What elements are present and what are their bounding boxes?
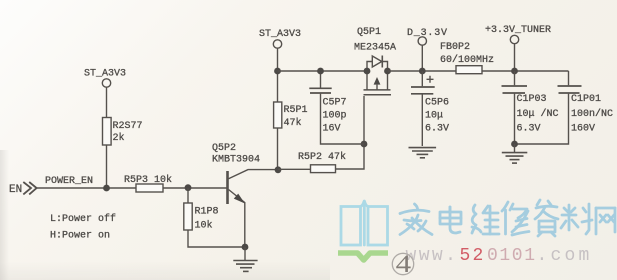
svg-text:EN: EN <box>9 184 22 196</box>
svg-text:Q5P1: Q5P1 <box>357 27 381 38</box>
node junction gate/C5P7 <box>361 141 368 148</box>
svg-text:FB0P2: FB0P2 <box>440 42 470 53</box>
wire R5P2 to Q5P1 gate <box>336 96 365 169</box>
wire drain to ferrite bead <box>388 70 457 72</box>
svg-text:POWER_EN: POWER_EN <box>45 176 93 187</box>
svg-text:L:Power off: L:Power off <box>50 213 116 225</box>
wire R2S77 to POWER_EN rail <box>106 145 108 188</box>
wire junction to R5P2 <box>278 168 311 170</box>
node junction rail left <box>274 68 281 75</box>
capacitor C5P7 100p 16V <box>309 71 364 144</box>
wire ST_A3V3 down to R5P1 <box>277 48 279 102</box>
power net ST_A3V3 (left) <box>84 69 126 88</box>
node junction C5P7 top <box>317 68 324 75</box>
ground below C5P6 <box>409 148 437 158</box>
svg-text:ST_A3V3: ST_A3V3 <box>259 29 301 40</box>
svg-text:ME2345A: ME2345A <box>354 43 396 54</box>
resistor R2S77 2k <box>103 118 143 146</box>
svg-text:10μ: 10μ <box>425 111 443 122</box>
svg-text:2k: 2k <box>113 132 125 144</box>
node junction ground C1P03 <box>511 141 518 148</box>
svg-text:R5P1: R5P1 <box>284 105 308 116</box>
node emitter junction <box>242 244 249 251</box>
svg-text:10k: 10k <box>195 220 213 232</box>
svg-text:R5P2 47k: R5P2 47k <box>298 151 346 163</box>
svg-text:.com: .com <box>537 246 593 266</box>
svg-text:6.3V: 6.3V <box>425 124 449 135</box>
transistor Q5P1 ME2345A p-mosfet <box>354 27 396 95</box>
svg-text:+3.3V_TUNER: +3.3V_TUNER <box>485 25 551 36</box>
watermark <box>338 200 615 278</box>
svg-text:16V: 16V <box>323 124 341 135</box>
svg-text:D_3.3V: D_3.3V <box>407 28 448 39</box>
capacitor C5P6 10u polarized <box>411 71 449 146</box>
capacitor C1P03 10u/NC <box>502 71 559 144</box>
svg-text:47k: 47k <box>284 117 302 129</box>
svg-text:0101: 0101 <box>487 246 537 266</box>
terminal D_3.3V <box>407 28 448 71</box>
resistor R5P3 10k <box>124 174 172 192</box>
svg-text:C5P7: C5P7 <box>323 98 347 109</box>
node junction at R2S77 bottom <box>103 185 110 192</box>
node junction D_3.3V <box>419 68 426 75</box>
svg-text:6.3V: 6.3V <box>517 124 541 135</box>
svg-text:H:Power on: H:Power on <box>50 231 110 242</box>
ground below Q5P2 <box>233 247 257 271</box>
svg-text:Q5P2: Q5P2 <box>212 143 236 154</box>
svg-text:100n/NC: 100n/NC <box>571 108 613 120</box>
port EN <box>9 182 37 196</box>
svg-text:C1P03: C1P03 <box>517 94 547 105</box>
node junction tuner rail <box>511 68 518 75</box>
wire rail ST_A3V3 to Q5P1 <box>278 70 368 72</box>
svg-text:60/100MHz: 60/100MHz <box>440 54 494 66</box>
node collector junction <box>275 166 282 173</box>
svg-text:KMBT3904: KMBT3904 <box>212 155 260 166</box>
svg-text:52: 52 <box>460 246 486 266</box>
node junction at R1P8 top <box>185 184 192 191</box>
ground below C1P03 <box>502 144 528 163</box>
wire ST_A3V3 to R2S77 <box>106 87 108 117</box>
power net ST_A3V3 (middle) <box>259 29 301 48</box>
wire bead to C1P01 <box>482 70 569 72</box>
resistor R5P2 47k <box>298 151 346 173</box>
resistor R5P1 47k <box>274 102 308 129</box>
wire junction down to R1P8 <box>187 188 189 203</box>
resistor R1P8 10k <box>184 203 219 232</box>
capacitor C1P01 100n/NC <box>515 71 614 144</box>
svg-text:100p: 100p <box>323 111 347 122</box>
wire R1P8 bottom to emitter node <box>188 230 245 247</box>
svg-text:160V: 160V <box>571 124 595 135</box>
note L:Power off H:Power on <box>50 213 116 242</box>
svg-text:10μ /NC: 10μ /NC <box>517 108 559 120</box>
svg-text:R2S77: R2S77 <box>113 121 143 132</box>
wire R5P3 to Q5P2 base <box>163 187 227 189</box>
svg-text:C1P01: C1P01 <box>571 94 601 105</box>
terminal +3.3V_TUNER <box>485 25 551 71</box>
node Q5P1 source <box>364 68 371 75</box>
node Q5P1 drain <box>384 68 391 75</box>
svg-text:R1P8: R1P8 <box>195 207 219 218</box>
svg-text:4: 4 <box>396 251 412 278</box>
wire EN to R5P3 <box>37 187 136 189</box>
svg-text:C5P6: C5P6 <box>425 98 449 109</box>
svg-text:ST_A3V3: ST_A3V3 <box>84 69 126 80</box>
wire R5P1 to collector junction <box>277 128 279 170</box>
ferrite bead FB0P2 60/100MHz <box>440 42 494 74</box>
transistor Q5P2 KMBT3904 <box>212 143 278 247</box>
